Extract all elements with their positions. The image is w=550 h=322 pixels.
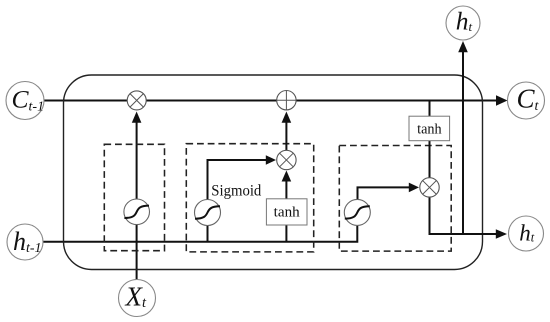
wire: multiply x3 output down and right to ht <box>430 197 508 239</box>
wire: tanh T1 down to h-line <box>285 225 287 242</box>
sigmoid unit S2 <box>195 200 221 226</box>
tanh box T1 <box>266 199 307 225</box>
dashed box: input gate <box>186 144 313 252</box>
node ht (top) <box>446 6 480 40</box>
node ht (right) <box>509 216 544 251</box>
node ht-1 <box>7 224 43 260</box>
svg-text:Sigmoid: Sigmoid <box>211 182 261 199</box>
wire: branch up to top ht <box>458 41 468 234</box>
add node on C-line <box>277 91 296 110</box>
wire: sigmoid S3 to multiply x3 (L-shape) <box>358 183 420 200</box>
dashed box: forget gate <box>104 144 164 250</box>
sigmoid unit S1 <box>124 199 150 225</box>
node Ct <box>508 82 545 119</box>
wire: C-line branch down through tanh T2 to multiply x3 <box>429 101 431 178</box>
svg-text:tanh: tanh <box>274 204 301 220</box>
sigmoid unit S3 <box>344 199 370 225</box>
wire: h-line from ht-1 to sigmoid S3 <box>43 226 357 242</box>
multiply node x1 on C-line <box>127 91 146 110</box>
dashed box: output gate <box>339 146 451 252</box>
wire: Xt input vertical line <box>132 112 142 282</box>
wire: sigmoid S2 to multiply node (L-shape) <box>208 155 277 242</box>
wire: multiply x2 up to add node <box>282 112 292 151</box>
multiply node x2 <box>277 150 296 169</box>
outer LSTM cell rounded rectangle <box>64 75 483 270</box>
tanh box T2 <box>409 116 450 141</box>
svg-text:tanh: tanh <box>417 122 442 138</box>
wire: tanh T1 up into multiply x2 <box>282 171 292 199</box>
multiply node x3 <box>420 178 439 197</box>
node Xt <box>119 280 156 317</box>
wire: C-line from Ct-1 to Ct <box>44 95 508 105</box>
node Ct-1 <box>6 82 44 120</box>
